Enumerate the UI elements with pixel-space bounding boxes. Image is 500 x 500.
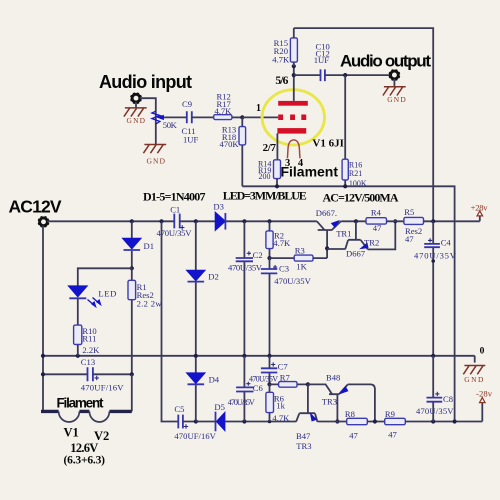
svg-text:R3: R3	[295, 245, 305, 255]
node C2/C6 column	[242, 354, 246, 358]
tube plate bar	[278, 101, 308, 106]
wire D5 to negative rail	[225, 421, 296, 423]
wire plate lead to 5/6 node	[293, 66, 295, 101]
node D1 top	[130, 219, 134, 223]
svg-text:47: 47	[373, 223, 382, 233]
wire AC left leg down	[42, 225, 44, 411]
svg-text:C1: C1	[170, 204, 180, 214]
wire R9 to -28v	[405, 403, 482, 422]
svg-text:B47: B47	[296, 431, 311, 441]
wire B47 emitter to node	[317, 421, 346, 423]
capacitor C7 470U/35V	[249, 356, 288, 385]
capacitor C6 470U/35V	[228, 356, 264, 422]
wire TR1 base to TR2	[327, 248, 345, 250]
resistor R7	[270, 372, 308, 387]
svg-text:C5: C5	[174, 404, 184, 414]
svg-text:C2: C2	[253, 250, 263, 260]
tube cathode bar	[277, 128, 306, 134]
svg-text:470UF/16V: 470UF/16V	[81, 383, 124, 393]
svg-text:C7: C7	[278, 361, 289, 371]
node TR1 base junction	[325, 246, 329, 250]
wire B48 emitter loop to R8 right	[348, 384, 375, 421]
node C13 left	[41, 372, 45, 376]
node D4 bottom	[194, 419, 198, 423]
svg-text:C4: C4	[441, 238, 452, 248]
node C4/C8 column	[431, 354, 435, 358]
diode D4 1N4007	[187, 356, 220, 422]
svg-text:1: 1	[256, 103, 261, 114]
svg-text:2.2 2w: 2.2 2w	[137, 299, 163, 309]
node D2/D4 column	[194, 354, 198, 358]
terminal -28v	[476, 388, 493, 402]
svg-text:12.6V: 12.6V	[70, 441, 98, 455]
wire R8 to R9	[367, 421, 384, 423]
tube grid squares	[278, 115, 306, 121]
wire connector stub to ground	[135, 102, 137, 108]
transistor TR3 B47 lower	[296, 384, 317, 451]
node 0 bus left end	[41, 354, 45, 358]
node grid junction	[240, 115, 244, 119]
connector J1 Audio input	[131, 93, 142, 104]
svg-text:50K: 50K	[163, 120, 178, 130]
wire connector to pot top	[140, 98, 156, 111]
node B48 collector on rail	[335, 419, 339, 423]
transistor TR1 D667	[316, 208, 352, 249]
svg-text:R5: R5	[404, 207, 414, 217]
wire D3 to TR1 collector	[225, 220, 317, 222]
svg-text:TR1: TR1	[336, 228, 351, 238]
node C8 bottom	[431, 419, 435, 423]
node C3/C7 column	[267, 354, 271, 358]
svg-text:C13: C13	[81, 357, 95, 367]
svg-text:470U/35V: 470U/35V	[416, 406, 454, 416]
wire C5 to D5	[183, 421, 216, 423]
node R4 left	[354, 219, 358, 223]
node R8 R9 junction	[373, 419, 377, 423]
svg-text:D5: D5	[214, 402, 225, 412]
node C2 top	[242, 219, 246, 223]
svg-text:Filament: Filament	[281, 164, 339, 180]
svg-text:47: 47	[405, 234, 414, 244]
resistor R3 1K	[270, 245, 328, 271]
svg-text:TR3: TR3	[322, 396, 337, 406]
svg-text:R7: R7	[280, 372, 291, 382]
svg-text:470U/35V: 470U/35V	[274, 276, 311, 286]
wire AC line to C1	[47, 220, 174, 222]
connector AC12V	[38, 216, 49, 227]
capacitor C9/C11 1UF	[182, 99, 199, 144]
wire R12 to grid node	[232, 116, 242, 118]
node R14 on bus	[275, 184, 279, 188]
wire LED branch	[78, 268, 132, 286]
capacitor C13 470UF/16V	[43, 357, 132, 393]
node R10 bottom	[76, 354, 80, 358]
svg-text:R21: R21	[349, 169, 362, 178]
svg-text:AC12V: AC12V	[9, 197, 62, 217]
potentiometer 50K zigzag	[152, 111, 160, 124]
wire R4 to R5	[387, 220, 404, 222]
svg-text:470U/35V: 470U/35V	[414, 250, 457, 260]
node plate 5/6 dots	[292, 64, 296, 68]
diode D3 1N4007	[213, 201, 225, 230]
svg-text:1UF: 1UF	[314, 55, 330, 65]
svg-text:+28v: +28v	[471, 203, 489, 213]
wire cathode lead to R14	[276, 133, 278, 159]
tube envelope circle	[262, 90, 324, 145]
svg-text:V1: V1	[64, 426, 79, 440]
LED blue	[68, 286, 116, 307]
svg-text:470UF/16V: 470UF/16V	[174, 431, 216, 441]
resistor R12/R17 4.7K	[214, 91, 232, 119]
wire C9 to R12	[192, 116, 214, 118]
node +28 rail junction	[431, 219, 435, 223]
node R6 bottom	[268, 420, 272, 424]
wire pot bottom to ground	[155, 124, 157, 144]
node C10 R16 junction	[343, 73, 347, 77]
resistor R8 47	[345, 409, 367, 441]
connector J2 Audio output	[389, 70, 400, 81]
node R2 C3 R3 junction	[267, 256, 271, 260]
svg-text:Audio input: Audio input	[99, 72, 192, 92]
node R7 right junction	[306, 382, 310, 386]
wire grid node to tube pin 1	[242, 116, 278, 118]
potentiometer wiper arrow	[163, 116, 187, 118]
svg-text:C8: C8	[443, 394, 453, 404]
svg-text:D4: D4	[209, 375, 220, 385]
resistor R2 4.7K	[266, 221, 291, 258]
svg-text:4.7K: 4.7K	[272, 55, 290, 65]
svg-text:TR3: TR3	[296, 441, 311, 451]
svg-text:-28v: -28v	[476, 388, 493, 398]
capacitor C3 470U/35V	[261, 258, 312, 356]
svg-text:D3: D3	[213, 201, 224, 211]
svg-text:GND: GND	[387, 95, 406, 104]
resistor R9 47	[385, 409, 406, 440]
svg-text:470K: 470K	[219, 139, 239, 149]
diode D2 1N4007	[187, 221, 219, 355]
svg-text:0: 0	[480, 347, 485, 357]
node D1 bottom LED branch	[130, 266, 134, 270]
svg-text:1K: 1K	[296, 261, 307, 271]
svg-text:D667.: D667.	[316, 208, 337, 218]
svg-text:D667: D667	[346, 248, 366, 258]
capacitor C2 470U/35V	[228, 221, 263, 355]
resistor R16/R21 100K	[342, 75, 367, 188]
wire filament right leg	[131, 374, 133, 411]
svg-text:TR2: TR2	[364, 237, 379, 247]
svg-text:4.7K: 4.7K	[272, 413, 290, 423]
terminal +28v	[471, 203, 489, 216]
wire top bus to right rail	[294, 28, 433, 221]
node C7 R7 R6 junction	[267, 382, 271, 386]
resistor R15/R20 4.7K plate load	[272, 28, 297, 66]
node R16 on bus	[343, 184, 347, 188]
svg-text:V1 6JI: V1 6JI	[312, 138, 343, 150]
svg-text:C9: C9	[182, 99, 192, 109]
capacitor C8 470U/35V	[416, 356, 454, 422]
svg-text:R4: R4	[371, 208, 382, 218]
transistor TR2 D667	[345, 221, 379, 258]
resistor R14/R19 200	[258, 159, 280, 186]
svg-text:2/7: 2/7	[263, 142, 277, 154]
resistor R10/R11 2.2K	[74, 299, 101, 356]
svg-text:B48: B48	[326, 372, 340, 382]
svg-text:1k: 1k	[276, 400, 285, 410]
svg-text:470U/35V: 470U/35V	[228, 262, 263, 272]
capacitor C1 470U/35V	[157, 204, 193, 237]
resistor R13/R18 470K	[219, 117, 245, 186]
svg-text:LED=3MM/BLUE: LED=3MM/BLUE	[223, 189, 307, 203]
svg-text:D1-5=1N4007: D1-5=1N4007	[143, 190, 206, 204]
resistor R1 Res2 2.2 2w	[128, 268, 162, 374]
svg-text:4.7K: 4.7K	[273, 238, 291, 248]
svg-text:2.2K: 2.2K	[82, 345, 100, 355]
svg-text:Filament: Filament	[57, 396, 105, 411]
node C13 right	[130, 372, 134, 376]
capacitor C10/C12 1UF coupling	[294, 42, 391, 82]
svg-text:4.7K: 4.7K	[214, 106, 232, 116]
svg-text:AC=12V/500MA: AC=12V/500MA	[323, 191, 399, 205]
svg-text:47: 47	[349, 430, 358, 440]
svg-text:GND: GND	[464, 375, 484, 384]
ground GND under output	[383, 79, 406, 104]
resistor R6 1k	[266, 384, 290, 423]
wire tube common bus to right leg	[242, 186, 454, 421]
svg-text:(6.3+6.3): (6.3+6.3)	[64, 455, 106, 467]
capacitor C4 470U/35V	[414, 221, 457, 355]
svg-text:C3: C3	[279, 263, 289, 273]
capacitor C5 470UF/16V	[174, 404, 216, 441]
node R2 top	[267, 219, 271, 223]
svg-text:200: 200	[259, 172, 271, 181]
node D2 top	[194, 219, 198, 223]
svg-text:C6: C6	[253, 383, 264, 393]
svg-text:R9: R9	[385, 409, 395, 419]
resistor R5 Res2 47	[404, 207, 424, 244]
diode D5 1N4007	[214, 402, 225, 431]
diode D1 1N4007	[123, 221, 155, 268]
wire C1 to D3	[180, 220, 216, 222]
svg-text:GND: GND	[127, 116, 146, 125]
svg-text:LED: LED	[98, 289, 116, 299]
wire C5 riser	[162, 221, 179, 421]
node C5 riser top	[159, 219, 163, 223]
resistor R4 47	[366, 208, 387, 234]
svg-text:R8: R8	[345, 409, 355, 419]
ground GND1 under input connector	[124, 108, 147, 125]
svg-text:47: 47	[388, 429, 397, 439]
transistor TR3 B48 upper	[308, 372, 348, 421]
svg-text:Audio output: Audio output	[340, 52, 431, 71]
filament winding V1 V2	[41, 410, 132, 413]
svg-text:1UF: 1UF	[183, 135, 199, 145]
tube filament heater arcs pins 3 4	[287, 140, 300, 158]
node R4 right R5 left	[393, 219, 397, 223]
ground GND2 under pot	[143, 145, 166, 166]
wire TR1 emitter to R4	[341, 220, 366, 222]
svg-text:GND: GND	[147, 156, 166, 165]
node right leg bottom	[453, 419, 457, 423]
potentiometer 50K body line	[155, 111, 157, 124]
svg-text:470U/35V: 470U/35V	[228, 398, 255, 407]
svg-text:D1: D1	[144, 241, 155, 251]
node C4 lower lead	[431, 259, 435, 263]
wire 0 bus	[43, 356, 475, 363]
svg-text:5/6: 5/6	[275, 75, 288, 87]
ground GND at 0 terminal	[463, 366, 485, 384]
svg-text:D2: D2	[208, 272, 219, 282]
svg-text:R11: R11	[82, 334, 96, 344]
wire TR2 emitter riser	[368, 221, 395, 249]
node C6 bottom	[242, 419, 246, 423]
wire R5 to +28v	[424, 216, 480, 221]
